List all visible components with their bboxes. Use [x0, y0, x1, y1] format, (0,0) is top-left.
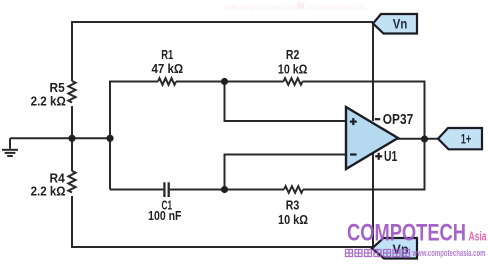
svg-text:R2: R2 [286, 47, 300, 62]
wire ground to rails [10, 137, 110, 139]
node C1-R3 junction [221, 186, 228, 193]
wire R3 to C1 junction [170, 189, 284, 191]
svg-text:Asia: Asia [469, 229, 487, 244]
wire Vp supply drop [372, 152, 374, 248]
svg-text:www.compotechasia.com: www.compotechasia.com [412, 248, 486, 258]
op-amp plus input mark [350, 118, 357, 125]
svg-text:100 nF: 100 nF [148, 208, 181, 223]
wire noninverting input stub [225, 82, 347, 122]
svg-text:Vn: Vn [393, 16, 408, 32]
ground [2, 138, 18, 156]
resistor R3 [284, 186, 303, 193]
svg-text:1+: 1+ [461, 132, 472, 147]
label minus supply [375, 118, 380, 120]
wire left rail upper [71, 21, 73, 81]
svg-text:10 kΩ: 10 kΩ [278, 61, 308, 76]
op-amp U1 triangle [346, 107, 398, 169]
label plus supply [375, 153, 382, 160]
resistor R4 [68, 171, 75, 193]
wire Vn supply drop [372, 24, 374, 122]
resistor R1 [158, 78, 176, 85]
capacitor C1 plates [163, 182, 165, 197]
wire top rail [72, 21, 373, 23]
flag 1+ output [438, 128, 482, 149]
svg-text:www.compotechasia.com: www.compotechasia.com [224, 3, 295, 12]
svg-text:2.2 kΩ: 2.2 kΩ [31, 93, 66, 108]
wire inner vertical [109, 81, 111, 190]
svg-text:R3: R3 [286, 197, 300, 212]
flag Vn [373, 14, 417, 34]
svg-text:47 kΩ: 47 kΩ [151, 61, 183, 76]
watermark top faint line [224, 3, 365, 12]
watermark COMPOTECH [347, 220, 487, 247]
svg-text:R1: R1 [161, 47, 173, 62]
wire C1 left [110, 189, 163, 191]
wire left rail mid [71, 106, 73, 171]
resistor R5 [68, 81, 75, 103]
svg-text:2.2 kΩ: 2.2 kΩ [31, 184, 66, 199]
node ground-inner rail junction [106, 135, 113, 142]
wire left rail lower [71, 196, 73, 248]
wire inverting input stub [225, 155, 347, 190]
node R1-R2 junction [221, 78, 228, 85]
svg-text:U1: U1 [384, 149, 397, 165]
svg-text:COMPOTECH: COMPOTECH [347, 220, 466, 247]
watermark bottom small line [346, 250, 410, 257]
svg-text:compotechasia.com: compotechasia.com [308, 3, 365, 12]
svg-text:10 kΩ: 10 kΩ [278, 212, 308, 227]
op-amp minus input mark [350, 153, 357, 155]
wire R1 to R2 [176, 81, 284, 83]
svg-text:OP37: OP37 [383, 112, 413, 128]
wire R2 to right vertical [303, 82, 425, 190]
flag Vp [372, 238, 417, 259]
wire op-amp output [397, 138, 438, 140]
node output junction [421, 135, 428, 142]
wire bottom rail [71, 246, 372, 248]
resistor R2 [284, 78, 303, 85]
wire R1 row left [109, 81, 158, 83]
node ground-left rail junction [68, 135, 75, 142]
